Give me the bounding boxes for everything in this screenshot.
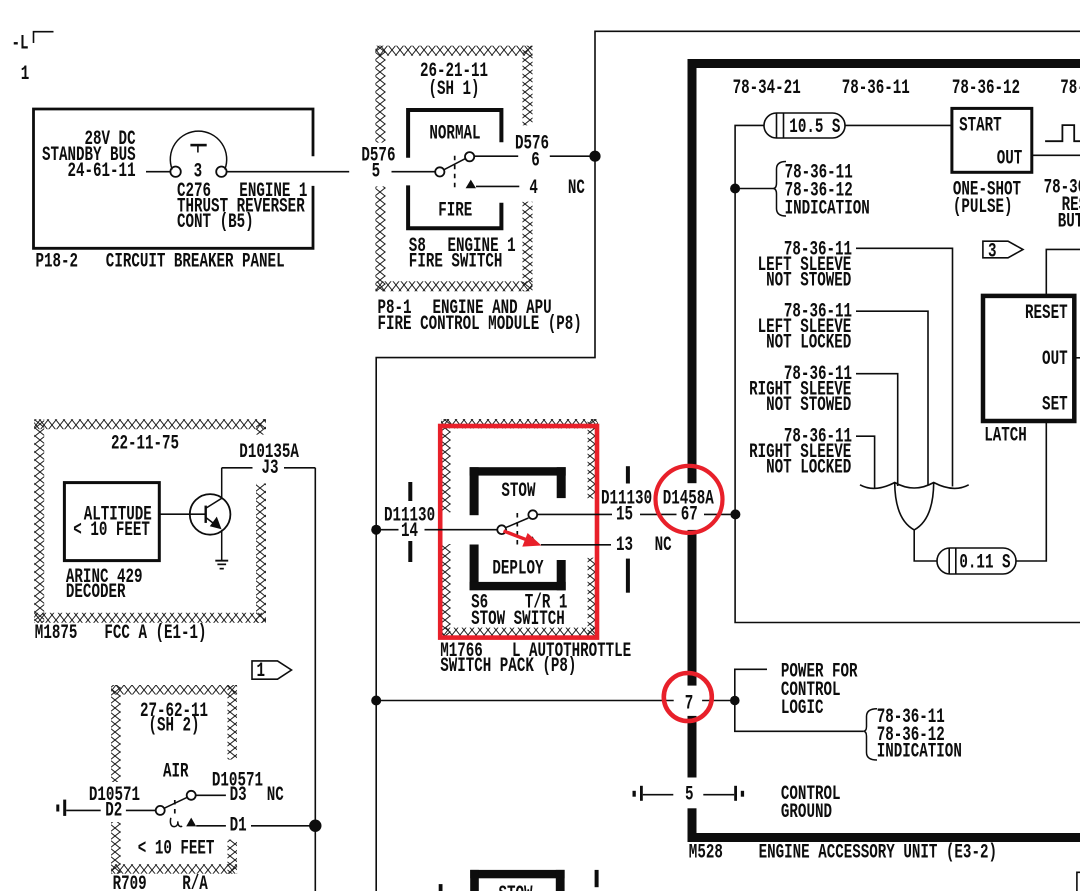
connector ticks left bbox=[408, 482, 412, 501]
wire to pin 7 bbox=[376, 700, 674, 702]
relay R709 common contact bbox=[156, 806, 165, 815]
highlight red circle pin 7 bbox=[664, 673, 712, 721]
relay R709 contact D1 triangle bbox=[186, 818, 196, 827]
svg-text:OUT: OUT bbox=[1042, 349, 1068, 371]
wire D11130 to pin 14 bbox=[376, 529, 398, 531]
transistor Q emitter with arrow bbox=[206, 518, 217, 526]
highlight red circle D1458A bbox=[656, 466, 723, 533]
circuit breaker C276 arc bbox=[170, 131, 226, 169]
module P8-1 hatch border bottom bbox=[375, 281, 532, 291]
connector ticks right bbox=[626, 466, 630, 483]
relay R709 contact D3 bbox=[187, 791, 196, 800]
svg-text:78-36-12: 78-36-12 bbox=[952, 78, 1020, 100]
svg-text:DECODER: DECODER bbox=[66, 582, 126, 604]
transistor Q collector bbox=[206, 468, 222, 509]
svg-text:1: 1 bbox=[21, 64, 30, 86]
mechanical linkage squiggle bbox=[170, 818, 182, 827]
svg-text:NORMAL: NORMAL bbox=[429, 123, 480, 145]
svg-text:-L: -L bbox=[12, 34, 29, 56]
wire block to transistor base bbox=[159, 513, 204, 515]
wire bus to breaker bbox=[146, 171, 170, 173]
svg-text:GROUND: GROUND bbox=[781, 802, 832, 824]
node junction at pin 6 wire bbox=[589, 151, 600, 162]
wire timer to one-shot bbox=[845, 124, 952, 126]
ground termination symbol bbox=[56, 805, 59, 812]
svg-text:78-36-11: 78-36-11 bbox=[1060, 78, 1080, 100]
svg-text:FIRE SWITCH: FIRE SWITCH bbox=[409, 251, 503, 273]
wire bracket to indication brace bbox=[735, 701, 864, 732]
svg-text:NOT LOCKED: NOT LOCKED bbox=[766, 458, 851, 480]
svg-text:6: 6 bbox=[531, 150, 540, 172]
corner bracket mark bbox=[34, 32, 54, 43]
svg-text:RESET: RESET bbox=[1025, 303, 1068, 325]
svg-text:NOT LOCKED: NOT LOCKED bbox=[766, 333, 851, 355]
OR gate input edge wavy bbox=[860, 483, 969, 489]
svg-text:< 10 FEET: < 10 FEET bbox=[138, 838, 215, 860]
brace indication lower bbox=[863, 709, 877, 760]
module P8-1 hatch border left bbox=[375, 46, 385, 143]
switch S6 common contact bbox=[497, 525, 506, 534]
svg-text:LATCH: LATCH bbox=[984, 426, 1027, 448]
svg-text:0.11 S: 0.11 S bbox=[959, 552, 1010, 574]
connector tick bottom stow left bbox=[439, 884, 443, 891]
node junction indication tap bbox=[730, 184, 740, 194]
svg-text:14: 14 bbox=[401, 521, 418, 543]
svg-text:5: 5 bbox=[685, 784, 694, 806]
svg-text:INDICATION: INDICATION bbox=[785, 199, 870, 221]
relay R709 hatch border bottom bbox=[111, 864, 237, 874]
pack M1766 hatch border left bbox=[441, 419, 451, 512]
wire pin 15 bbox=[537, 513, 612, 515]
wire left sleeve not locked bbox=[856, 311, 928, 484]
wire internal bus vertical bbox=[735, 125, 1080, 622]
wire OR output to timer bbox=[914, 530, 937, 561]
switch S6 contact 15 bbox=[528, 510, 537, 519]
svg-text:22-11-75: 22-11-75 bbox=[111, 434, 179, 456]
switch S8 housing lower bbox=[408, 185, 501, 228]
switch S8 contact 4 triangle bbox=[466, 180, 476, 189]
module P8-1 hatch border right bbox=[523, 46, 533, 126]
switch S6 arm bbox=[506, 518, 529, 528]
svg-text:CIRCUIT BREAKER PANEL: CIRCUIT BREAKER PANEL bbox=[106, 251, 285, 273]
switch S8 housing upper bbox=[408, 110, 501, 158]
relay R709 hatch border right bbox=[228, 685, 238, 760]
module P8-1 hatch border top bbox=[375, 46, 532, 56]
svg-text:24-61-11: 24-61-11 bbox=[67, 161, 135, 183]
svg-text:ENGINE ACCESSORY UNIT (E3-2): ENGINE ACCESSORY UNIT (E3-2) bbox=[759, 843, 997, 865]
wire D576 pin 6 bbox=[474, 155, 518, 157]
pack M1766 hatch border right bbox=[588, 419, 598, 499]
svg-text:NOT STOWED: NOT STOWED bbox=[766, 270, 851, 292]
unit M1875 hatch border top bbox=[34, 419, 266, 429]
svg-text:1: 1 bbox=[257, 661, 266, 683]
svg-text:(SH 1): (SH 1) bbox=[428, 79, 479, 101]
timer 0.11 S bbox=[937, 548, 1016, 574]
red actuation arrow bbox=[504, 531, 529, 540]
wire down right side to bottom bbox=[314, 468, 316, 891]
svg-text:< 10 FEET: < 10 FEET bbox=[73, 520, 150, 542]
svg-text:FIRE CONTROL MODULE (P8): FIRE CONTROL MODULE (P8) bbox=[378, 314, 582, 336]
OR gate body bbox=[895, 483, 934, 530]
node junction pin 7 wire left bbox=[371, 696, 381, 706]
connector tick bottom stow right bbox=[595, 870, 599, 887]
wire right sleeve not stowed bbox=[856, 374, 898, 486]
svg-text:CONT (B5): CONT (B5) bbox=[177, 212, 254, 234]
circuit breaker T handle bbox=[197, 146, 199, 153]
wire RESET input bbox=[1046, 249, 1080, 296]
wire D3 stub bbox=[196, 794, 226, 796]
svg-text:D1: D1 bbox=[230, 816, 247, 838]
switch S6 housing upper bbox=[470, 467, 566, 475]
svg-text:M528: M528 bbox=[689, 843, 723, 865]
svg-text:(PULSE): (PULSE) bbox=[953, 197, 1013, 219]
wire pin 13 stub bbox=[541, 544, 611, 546]
ground symbol bbox=[215, 560, 228, 562]
svg-text:INDICATION: INDICATION bbox=[877, 741, 962, 763]
pulse waveform symbol bbox=[1045, 125, 1080, 141]
latch U RESET OUT SET box bbox=[983, 296, 1074, 421]
svg-text:LOGIC: LOGIC bbox=[781, 698, 824, 720]
wire control ground bbox=[643, 794, 674, 796]
svg-text:FCC A (E1-1): FCC A (E1-1) bbox=[104, 623, 206, 645]
svg-text:STOW SWITCH: STOW SWITCH bbox=[471, 609, 565, 631]
wire latch OUT stub bbox=[1074, 357, 1080, 359]
svg-text:SET: SET bbox=[1042, 395, 1068, 417]
wire pin 4 stub bbox=[476, 185, 519, 187]
switch S8 arm bbox=[444, 159, 465, 170]
relay R709 hatch border left bbox=[111, 685, 121, 782]
pack M1766 hatch border top bbox=[441, 419, 598, 429]
wire J3 output bbox=[222, 467, 253, 469]
svg-text:78-36-11: 78-36-11 bbox=[842, 78, 910, 100]
svg-text:78-34-21: 78-34-21 bbox=[733, 78, 801, 100]
svg-text:R/A: R/A bbox=[182, 874, 208, 891]
travel dashed line bbox=[174, 800, 176, 818]
wire latch SET from timer bbox=[1016, 421, 1046, 561]
svg-text:FIRE: FIRE bbox=[438, 201, 472, 223]
wire D2 bbox=[66, 809, 101, 811]
svg-text:NC: NC bbox=[267, 785, 284, 807]
svg-text:NOT STOWED: NOT STOWED bbox=[766, 395, 851, 417]
svg-text:(SH 2): (SH 2) bbox=[148, 716, 199, 738]
svg-text:10.5 S: 10.5 S bbox=[789, 117, 840, 139]
node junction wire 67 bbox=[730, 509, 740, 519]
relay R709 hatch border top bbox=[111, 685, 237, 695]
node junction pin 7 inner bbox=[730, 696, 740, 706]
wire right sleeve not locked bbox=[856, 436, 875, 488]
wire breaker to fire switch bbox=[227, 171, 350, 173]
relay R709 arm bbox=[164, 797, 187, 808]
timer 10.5 S bbox=[764, 113, 845, 138]
travel dashed line bbox=[516, 513, 518, 547]
transistor Q base bar bbox=[205, 506, 207, 523]
wire left sleeve not stowed bbox=[856, 248, 953, 486]
svg-text:5: 5 bbox=[372, 162, 381, 184]
svg-text:P18-2: P18-2 bbox=[36, 251, 79, 273]
svg-text:4: 4 bbox=[529, 178, 538, 200]
flag 3 bbox=[983, 241, 1023, 258]
svg-text:D2: D2 bbox=[105, 801, 122, 823]
svg-text:J3: J3 bbox=[262, 458, 279, 480]
wire from junction up and right to sheet edge bbox=[595, 31, 1080, 156]
block ALTITUDE < 10 FEET bbox=[64, 483, 159, 561]
svg-text:R709: R709 bbox=[113, 874, 147, 891]
svg-text:3: 3 bbox=[988, 241, 997, 263]
pin 5 ground right termination bbox=[734, 786, 737, 801]
box corner bottom right bbox=[1077, 872, 1080, 891]
svg-text:STOW: STOW bbox=[499, 884, 534, 891]
svg-text:SWITCH PACK (P8): SWITCH PACK (P8) bbox=[440, 656, 576, 678]
pack M1766 hatch border bottom bbox=[441, 628, 598, 637]
svg-text:DEPLOY: DEPLOY bbox=[492, 559, 544, 581]
flag 1 bbox=[252, 661, 292, 679]
highlight red box bbox=[440, 426, 597, 638]
unit M1875 hatch border left bbox=[34, 419, 44, 623]
svg-text:67: 67 bbox=[681, 505, 698, 527]
wire OUT to sheet edge bbox=[1032, 154, 1080, 156]
switch S8 common contact bbox=[435, 167, 444, 176]
node junction D1 wire bbox=[309, 820, 321, 832]
unit M528 thick border bottom bbox=[688, 833, 1080, 842]
pin 5 ground left termination bbox=[633, 791, 636, 797]
svg-text:13: 13 bbox=[616, 535, 633, 557]
circuit breaker C276 terminals bbox=[170, 167, 180, 177]
switch S6 contact 13 triangle bbox=[528, 536, 538, 545]
svg-text:START: START bbox=[959, 115, 1002, 137]
switch S8 travel dashed line bbox=[454, 156, 456, 190]
unit M1875 hatch border bottom bbox=[34, 613, 266, 623]
switch S6 housing lower bbox=[470, 545, 479, 591]
wire bracket to POWER FOR CONTROL LOGIC bbox=[735, 669, 767, 700]
wire D1 bbox=[196, 825, 226, 827]
brace indication upper bbox=[773, 162, 786, 217]
svg-text:M1875: M1875 bbox=[35, 623, 78, 645]
switch S8 contact 6 bbox=[465, 152, 474, 161]
transistor Q circle bbox=[190, 494, 231, 535]
unit M528 thick border left bbox=[688, 59, 697, 483]
switch S7 housing bottom sheet edge bbox=[470, 870, 564, 878]
svg-text:NC: NC bbox=[655, 535, 672, 557]
svg-text:15: 15 bbox=[616, 505, 633, 527]
one-shot START OUT box bbox=[952, 108, 1032, 172]
unit M1875 hatch border right bbox=[256, 419, 266, 434]
node junction wire 14 bbox=[371, 525, 381, 535]
svg-text:D3: D3 bbox=[230, 785, 247, 807]
svg-text:BUTTON: BUTTON bbox=[1058, 212, 1080, 234]
wire from junction down then left then down to sheet bottom bbox=[376, 156, 595, 891]
panel P18-2 CIRCUIT BREAKER PANEL box bbox=[34, 109, 314, 248]
unit M528 thick border top bbox=[688, 59, 1080, 68]
svg-text:STOW: STOW bbox=[501, 481, 536, 503]
wire junction to brace bbox=[735, 188, 773, 190]
svg-text:7: 7 bbox=[685, 693, 694, 715]
svg-text:AIR: AIR bbox=[163, 761, 189, 783]
svg-text:NC: NC bbox=[568, 178, 585, 200]
svg-text:OUT: OUT bbox=[997, 148, 1023, 170]
